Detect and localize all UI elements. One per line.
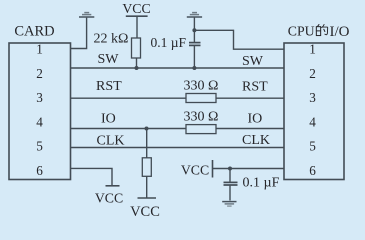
svg-text:4: 4 [36, 114, 43, 129]
svg-text:CLK: CLK [242, 133, 270, 148]
svg-text:3: 3 [309, 90, 316, 105]
svg-text:CARD: CARD [14, 24, 54, 40]
svg-text:4: 4 [309, 114, 316, 129]
svg-text:2: 2 [36, 66, 43, 81]
svg-text:6: 6 [36, 163, 43, 178]
svg-text:2: 2 [309, 66, 316, 81]
svg-text:RST: RST [96, 79, 122, 94]
svg-text:0.1 µF: 0.1 µF [151, 35, 187, 50]
svg-text:3: 3 [36, 90, 43, 105]
svg-text:VCC: VCC [181, 162, 209, 177]
svg-text:6: 6 [309, 163, 316, 178]
svg-text:I/O: I/O [330, 24, 350, 40]
svg-text:IO: IO [101, 111, 116, 126]
svg-text:0.1 µF: 0.1 µF [243, 176, 280, 191]
svg-text:5: 5 [36, 139, 43, 154]
svg-text:22 kΩ: 22 kΩ [94, 31, 129, 46]
svg-text:SW: SW [242, 54, 264, 69]
svg-text:VCC: VCC [130, 204, 160, 220]
svg-text:IO: IO [248, 111, 263, 126]
svg-text:1: 1 [36, 42, 43, 57]
svg-text:1: 1 [309, 42, 316, 57]
svg-text:330 Ω: 330 Ω [184, 79, 219, 94]
svg-text:330 Ω: 330 Ω [184, 110, 219, 125]
svg-text:CPU: CPU [288, 24, 315, 39]
svg-text:SW: SW [98, 52, 120, 67]
svg-text:CLK: CLK [97, 133, 125, 148]
svg-text:5: 5 [309, 139, 316, 154]
svg-text:RST: RST [242, 79, 268, 94]
svg-text:VCC: VCC [122, 1, 150, 16]
svg-text:VCC: VCC [95, 191, 123, 206]
